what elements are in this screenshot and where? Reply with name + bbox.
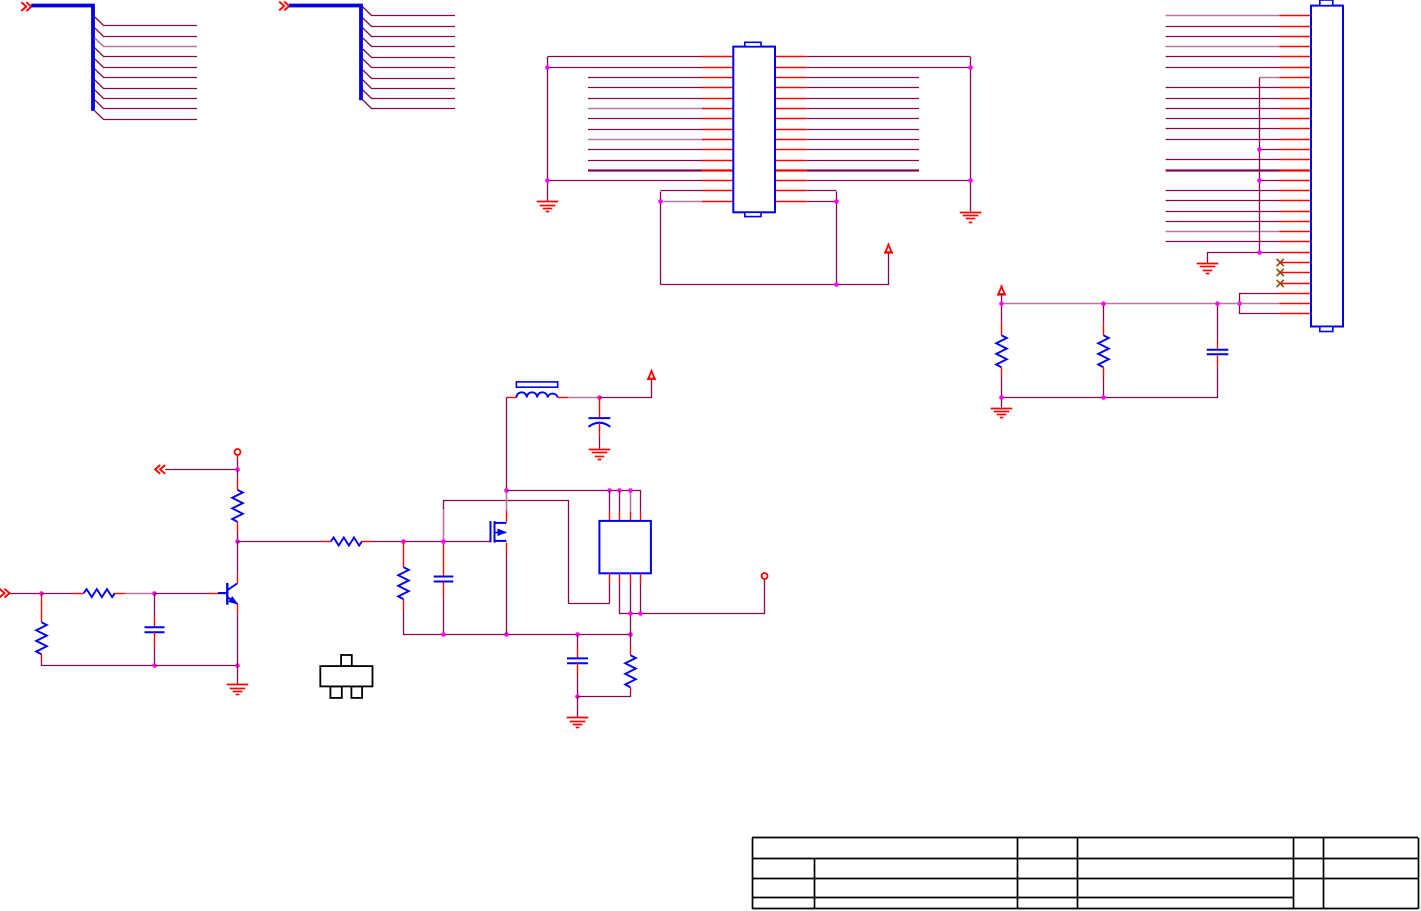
wire bus2 branch 9 [363,90,455,99]
wire U1 right pin8 net [806,129,919,131]
wire U1 right pin5 net [806,98,919,100]
pin U1 left 3 [702,77,733,79]
wire J1 pin1 net [1166,15,1280,17]
junction (bottom rail / C2) [152,663,157,668]
wire C4 net to ground [577,697,579,718]
wire U1 left pin15 net [661,201,703,203]
ground (left of U1) [537,202,559,212]
pin C3 top [443,542,445,577]
wire U1 left pin4 net [588,87,702,89]
port circle (collector supply) [235,449,241,455]
pin U1 left 7 [702,118,733,120]
transistor Q1 collector stroke [228,583,238,590]
pin J1 23 [1280,241,1312,243]
wire U2 top pin1 [609,491,611,512]
pin U1 left 11 [702,160,733,162]
pin C3 bottom [443,582,445,599]
junction (left rail / pin2) [545,65,550,70]
pin R1 top [237,478,239,490]
junction (bottom rail / C3) [441,632,446,637]
pin U1 left 10 [702,149,733,151]
wire J1 pin8 net [1166,87,1280,89]
pin L1 right [558,397,569,399]
wire J1 pin4 net [1166,46,1280,48]
wire C4 top lead [577,635,579,647]
wire bus1 branch 2 [95,28,197,37]
wire U1 right pin13 net [806,180,970,182]
junction (right rail / pin13) [968,178,973,183]
wire U1 right pin10 net [806,149,919,151]
pin J1 30 [1280,313,1312,315]
pin R8 top [630,646,632,656]
pin R2 right [115,593,125,595]
power port arrow (resistor network) [997,285,1006,294]
wire right rail of U1 [970,57,972,211]
wire J1 pin23 net [1166,241,1280,243]
pin R3 top [41,594,43,623]
pin J1 10 [1280,108,1312,110]
wire bus2 branch 10 [363,100,455,109]
wire U1 left pin10 net [588,149,702,151]
pin C1 bottom [599,423,601,436]
wire junction to R2 [42,593,73,595]
pin U1 right 3 [775,77,806,79]
junction (bottom / R7) [1101,395,1106,400]
pin J1 26 [1280,272,1312,274]
pin U1 left 4 [702,87,733,89]
wire bus2 branch 3 [363,28,455,37]
junction (sub-box right / pin15) [834,199,839,204]
pin J1 20 [1280,211,1312,213]
wire J1 pin2 net [1166,26,1280,28]
wire C2 to Q1 base [155,593,208,595]
pin U2 top 2 [619,512,621,521]
junction (C4 / R8 net) [575,694,580,699]
pin J1 22 [1280,231,1312,233]
pin R4 right [361,541,371,543]
transistor Q2 source stub [495,540,507,542]
pin R7 top [1103,323,1105,336]
pin U1 left 1 [702,56,733,58]
wire bus2 branch 4 [363,38,455,47]
wire C7 bottom [1002,366,1218,398]
transistor Q1 base lead [218,592,227,594]
transistor Q1 base bar [226,583,228,605]
pin R4 left [320,541,331,543]
ground (C1) [589,450,611,460]
wire U2 pin2 to port [620,579,765,614]
wire C7 top [1217,304,1219,341]
wire J1 pin5 net [1166,56,1280,58]
wire U1 left pin8 net [588,129,702,131]
wire port to junction [237,460,239,470]
wire J1 pin24 net to ground [1208,253,1280,263]
pin R1 bottom [237,522,239,532]
pin J1 29 [1280,303,1312,305]
transistor Q2 gate bar [490,521,492,542]
pin C4 bottom [577,663,579,675]
IC U1 top tab [745,42,761,46]
wire left rail of U1 [547,57,549,201]
pin J1 2 [1280,26,1312,28]
junction (J1 vertical / pin24) [1257,250,1262,255]
pin Q1 base [208,593,218,595]
pin J1 21 [1280,221,1312,223]
pin U1 left 13 [702,180,733,182]
wire L1 to C1 node (light) [568,397,599,399]
junction (sub-box left / pin15) [658,199,663,204]
pin U1 left 9 [702,139,733,141]
wire J1 pin12 net [1166,128,1280,130]
wire bus2 branch 5 [363,49,455,58]
IC U1 body [733,47,775,213]
junction (rail / R7) [1101,301,1106,306]
wire U1 right pin4 net [806,87,919,89]
pin J1 6 [1280,67,1312,69]
wire junction to R1 [237,470,239,478]
junction (pin3 / output net) [628,611,633,616]
capacitor C1 plate [589,417,611,419]
bus entry port >> (bus 2) [279,2,289,11]
wire J1 pin16 net (bold) [1166,169,1280,171]
wire R7 bottom [1103,377,1105,398]
wire U1 right pin7 net [806,118,919,120]
wire resnet top rail (light) [1002,303,1240,305]
connector J1 body [1311,6,1343,327]
pin U1 right 6 [775,108,806,110]
wire U1 right pin1 net [806,56,970,58]
pin U1 left 12 [702,169,733,171]
pin R6 top [1001,323,1003,336]
junction (drain rail) [504,488,509,493]
wire J1 pin20 net [1166,211,1280,213]
resistor R1 [232,490,243,522]
pin C1 top [599,398,601,418]
power port arrow (sub-box) [884,244,893,253]
wire bus2 branch 2 [363,18,455,27]
wire J1 pin17 stub [1260,180,1280,182]
wire bus2 branch 7 [363,70,455,79]
wire U1 left pin1 net [548,56,703,58]
pin J1 7 [1280,77,1312,79]
wire bus1 branch 3 [95,38,197,47]
wire J1 pin29 net (light) [1240,303,1280,305]
SOT-23 package body [320,666,372,686]
wire C1 to ground [599,436,601,449]
pin R7 bottom [1103,367,1105,377]
ground (connector) [1197,264,1219,274]
no-connect X pin27 [1277,280,1284,287]
pin U1 left 15 [702,201,733,203]
bus 2 [289,6,361,101]
wire J1 pin6 net [1166,67,1280,69]
wire U1 left pin5 net [588,98,702,100]
pin J1 17 [1280,180,1312,182]
pin U1 right 15 [775,201,806,203]
bus 1 [31,6,93,111]
wire bus1 branch 8 [95,90,197,99]
pin U1 left 6 [702,108,733,110]
junction (J1 vertical / pin17) [1257,178,1262,183]
wire sub-box right edge [836,192,838,285]
ground (resistor network) [991,409,1013,418]
wire J1 pin9 net [1166,98,1280,100]
wire U1 left pin9 net [588,139,702,141]
pin U1 right 5 [775,98,806,100]
junction (gate net / R5) [401,539,406,544]
wire J1 pin22 net [1166,231,1280,233]
wire U1 right pin2 net [806,67,970,69]
pin U2 top 1 [609,512,611,521]
wire entry to junction [10,593,42,595]
wire U1 right pin14 net [806,190,836,192]
wire U1 left pin7 net [588,118,702,120]
wire R6 top [1001,304,1003,323]
inductor L1 core [516,382,557,387]
capacitor C3 [434,577,454,582]
wire drain rail to U2 [507,491,641,512]
port circle (output) [762,573,768,579]
wire U1 left pin12 net (bold) [588,169,702,171]
wire bus1 branch 7 [95,80,197,89]
junction (pin4 / output net) [638,611,643,616]
junction (rail / U2 pin1) [607,488,612,493]
pin R8 bottom [630,687,632,692]
pin U1 right 8 [775,129,806,131]
wire U2 pin1 bottom [609,584,611,604]
no-connect X pin26 [1277,269,1284,276]
wire U2 pin4 bottom [640,584,642,614]
wire U1 left pin3 net [588,77,702,79]
pin U2 bottom 2 [619,573,621,583]
transistor Q2 bulk arrow [498,529,506,535]
wire R2 to C2 (light) [125,593,155,595]
wire U2 top pin3 (light) [630,491,632,512]
transistor Q2 drain stub [495,522,507,524]
junction (bottom / R6) [999,395,1004,400]
pin Q2 gate [489,541,491,543]
pin Q2 source [506,543,508,553]
pin J1 16 [1280,169,1312,171]
wire bus1 branch 9 [95,100,197,109]
wire bottom rail to emitter [155,665,238,667]
pin J1 25 [1280,262,1312,264]
pin Q1 collector [237,574,239,584]
junction (port/R1) [235,467,240,472]
wire J1 pin18 net [1166,190,1280,192]
wire R8 top lead [630,635,632,646]
pin J1 14 [1280,149,1312,151]
wire C4 bottom lead [577,675,579,697]
capacitor C1 curved plate [589,423,611,427]
pin R2 left [73,593,84,595]
wire U1 right pin6 net [806,108,919,110]
wire J1 pin11 net [1166,118,1280,120]
pin J1 11 [1280,118,1312,120]
pin U1 right 13 [775,180,806,182]
pin C4 top [577,646,579,658]
connector J1 top tab [1320,0,1333,6]
sheet entry << (left) [155,465,165,474]
pin U1 left 8 [702,129,733,131]
wire R6 bottom [1001,377,1003,398]
wire bus2 branch 1 [363,7,455,16]
pin U2 bottom 4 [640,573,642,583]
pin U1 right 11 [775,160,806,162]
pin U1 right 4 [775,87,806,89]
SOT-23 top tab [341,655,352,666]
wire J1 pin3 net [1166,36,1280,38]
junction (rail / U2 pin2) [617,488,622,493]
wire resnet ground stub [1001,398,1003,408]
pin R3 bottom [41,654,43,661]
wire J1 pin19 net [1166,200,1280,202]
pin L1 left [507,397,517,399]
pin J1 3 [1280,36,1312,38]
pin C7 bottom [1217,355,1219,366]
capacitor C4 [567,658,588,663]
wire L1 to drain rail [506,398,508,491]
wire J1 pin13 net [1166,139,1280,141]
capacitor C7 [1207,350,1229,354]
pin J1 13 [1280,139,1312,141]
wire U2 top pin2 [619,491,621,512]
no-connect X pin25 [1277,259,1284,266]
wire Q2 source to rail [506,553,508,635]
pin R5 top [403,542,405,568]
wire J1 pin21 net [1166,221,1280,223]
junction (base net / R3) [39,591,44,596]
junction (bottom rail / R8) [628,632,633,637]
pin C7 top [1217,341,1219,350]
wire C2 top lead [154,594,156,617]
wire U1 left pin6 net [588,108,702,110]
pin U1 left 14 [702,190,733,192]
junction (rail / U2 pin3) [628,488,633,493]
pin U2 top 4 [640,512,642,521]
wire sub-box bottom [661,252,889,285]
wire bus1 branch 10 [95,111,197,120]
junction (sub-box bottom) [834,282,839,287]
pin U1 right 12 [775,169,806,171]
inductor L1 coil [516,392,557,397]
wire VCC node to arrow [600,378,652,398]
bus entry port >> (bus 1) [21,2,31,11]
wire U1 right pin12 net (bold) [806,169,919,171]
wire J1 pin10 net [1166,108,1280,110]
wire J1 pin15 net [1166,159,1280,161]
SOT-23 bottom-right tab [351,686,362,698]
wire R4 to gate [372,541,489,543]
pin J1 1 [1280,15,1312,17]
wire U1 right pin9 net [806,139,919,141]
pin J1 15 [1280,159,1312,161]
wire R1 to collector node [237,532,239,542]
ground (right of U1) [960,213,982,223]
title block table [752,838,1419,909]
pin U1 right 7 [775,118,806,120]
ground (Q1 emitter) [227,685,249,695]
junction (left rail / pin13) [545,178,550,183]
wire U1 left pin14 net [661,190,703,192]
wire sheet entry to R1 [165,469,237,471]
wire R3 to bottom rail [42,661,155,666]
resistor R8 [625,655,636,687]
junction (VCC node / C1) [597,395,602,400]
pin from port circle [237,455,239,460]
transistor Q2 bulk line [495,532,507,534]
pin R5 bottom [403,599,405,611]
wire C3 bottom lead [443,598,445,635]
pin U1 right 1 [775,56,806,58]
junction (bottom rail / C4) [575,632,580,637]
pin U1 left 2 [702,67,733,69]
pin R6 bottom [1001,367,1003,377]
transistor Q1 emitter arrow [229,597,237,604]
wire J1 pin7 stub [1260,77,1280,79]
wire J1 pin28 net [1240,294,1280,314]
pin U2 bottom 1 [609,573,611,583]
pin U1 right 2 [775,67,806,69]
wire R5 to bottom rail [404,611,631,635]
junction (rail / C7) [1215,301,1220,306]
junction (J1 vertical / pin14) [1257,147,1262,152]
wire U2 pin3 bottom [630,584,632,635]
wire U1 left pin2 net [548,67,703,69]
wire J1 vertical net [1259,78,1261,253]
pin Q2 drain [506,511,508,522]
resistor R5 [398,567,409,599]
SOT-23 bottom-left tab [330,686,341,698]
pin U1 left 5 [702,98,733,100]
junction (gate net / C3) [441,539,446,544]
resistor R4 [331,538,362,546]
wire arrow to rail [1001,293,1003,303]
IC U2 body [599,521,651,573]
pin J1 24 [1280,252,1312,254]
transistor Q2 channel bar [494,521,496,543]
wire bus1 branch 6 [95,69,197,78]
pin U1 right 9 [775,139,806,141]
wire U1 right pin3 net [806,77,919,79]
connector J1 bottom tab [1320,327,1333,332]
wire collector node to R4 [238,541,321,543]
IC U1 bottom tab [745,212,761,216]
pin J1 8 [1280,87,1312,89]
ground (C4/R8) [567,718,589,728]
wire C2 bottom lead [154,647,156,666]
wire collector node down [237,542,239,574]
wire bus1 branch 4 [95,48,197,57]
wire J1 pin14 stub [1260,149,1280,151]
wire drain (light segment) [506,491,508,511]
wire U1 left pin13 net [548,180,703,182]
junction (right rail / pin2) [968,65,973,70]
pin J1 27 [1280,283,1312,285]
wire U1 right pin11 net [806,160,919,162]
pin J1 18 [1280,190,1312,192]
pin J1 28 [1280,293,1312,295]
pin Q1 emitter [237,604,239,614]
resistor R2 [84,589,115,597]
wire sub-box left edge [660,192,662,285]
pin U2 top 3 [630,512,632,521]
pin J1 5 [1280,56,1312,58]
wire bus2 branch 8 [363,80,455,89]
transistor Q1 emitter stroke [228,597,238,604]
wire U1 left pin11 net [588,160,702,162]
wire gate loop [444,501,610,604]
